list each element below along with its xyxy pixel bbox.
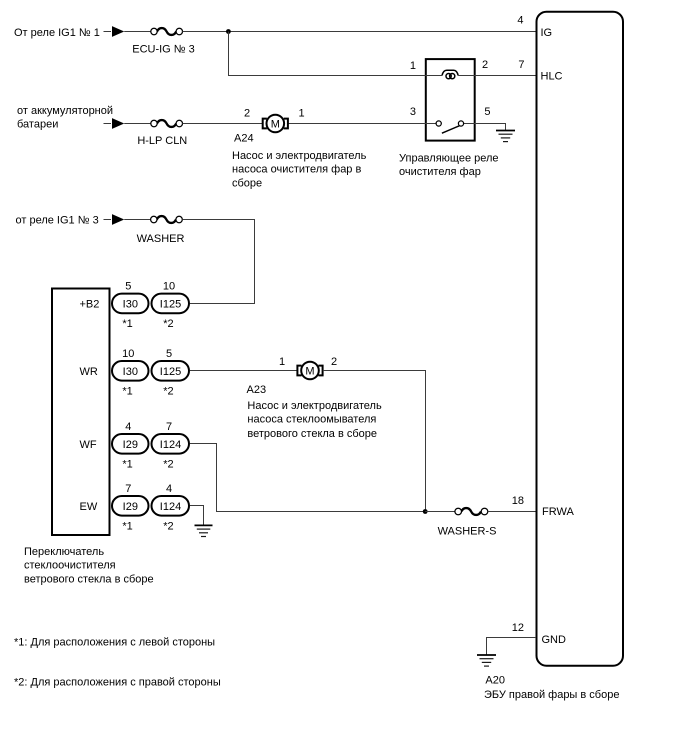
wire: WF row down and along to junction	[190, 444, 426, 512]
svg-text:*1: *1	[122, 458, 132, 470]
svg-text:H-LP CLN: H-LP CLN	[137, 135, 187, 147]
svg-text:насоса стеклоомывателя: насоса стеклоомывателя	[247, 414, 376, 426]
ground at EW	[195, 525, 213, 536]
svg-text:I125: I125	[160, 298, 181, 310]
wire: relay internal coil row	[425, 75, 442, 77]
connector I125 pin 10 (+B2 row)	[152, 280, 190, 330]
junction node on IG row	[226, 29, 231, 34]
svg-text:M: M	[305, 365, 314, 377]
ground at A20 GND	[477, 655, 496, 666]
svg-text:4: 4	[125, 421, 131, 433]
svg-text:*2: *2	[163, 520, 173, 532]
svg-text:I29: I29	[123, 439, 138, 451]
relay coil	[442, 70, 458, 79]
svg-text:*2: *2	[163, 385, 173, 397]
wire: junction to fuse WASHER-S	[425, 511, 455, 513]
svg-text:Управляющее реле: Управляющее реле	[399, 152, 499, 164]
svg-text:ECU-IG № 3: ECU-IG № 3	[132, 44, 195, 56]
svg-text:WF: WF	[80, 439, 97, 451]
svg-text:*2: Для расположения с правой: *2: Для расположения с правой стороны	[14, 676, 221, 688]
svg-text:7: 7	[166, 421, 172, 433]
wire: relay pin2 to ECU pin 7 HLC	[458, 75, 536, 77]
svg-text:I30: I30	[123, 298, 138, 310]
wire: EW row to ground	[190, 506, 204, 526]
svg-text:очистителя фар: очистителя фар	[399, 166, 481, 178]
connector I29 pin 7 (EW row)	[112, 483, 149, 533]
svg-text:I124: I124	[160, 439, 181, 451]
wire: fuse WASHER-S to ECU pin 18	[488, 511, 536, 513]
svg-text:I30: I30	[123, 366, 138, 378]
motor A24 (pump motor)	[263, 115, 288, 133]
svg-text:*1: *1	[122, 385, 132, 397]
svg-text:IG: IG	[541, 27, 553, 39]
connector I30 pin 5 (+B2 row)	[112, 280, 149, 330]
wire: motor A24 to relay pin 3	[288, 123, 425, 125]
svg-text:A24: A24	[234, 133, 254, 145]
svg-text:*2: *2	[163, 458, 173, 470]
svg-text:1: 1	[279, 356, 285, 368]
wire: WR row to motor A23	[190, 370, 297, 372]
svg-text:EW: EW	[80, 501, 98, 513]
fuse WASHER	[151, 216, 183, 223]
fuse H-LP CLN	[151, 120, 183, 127]
wire: arrow to fuse row1	[124, 31, 151, 33]
wire: fuse to motor A24	[183, 123, 263, 125]
connector I125 pin 5 (WR row)	[152, 348, 190, 398]
svg-text:2: 2	[331, 356, 337, 368]
svg-text:Насос и электродвигатель: Насос и электродвигатель	[247, 400, 382, 412]
svg-text:*1: *1	[122, 520, 132, 532]
svg-text:1: 1	[298, 108, 304, 120]
power arrow washer row	[112, 214, 124, 225]
power arrow battery row	[112, 118, 124, 129]
wire: ECU pin12 GND to ground	[487, 638, 537, 656]
connector I30 pin 10 (WR row)	[112, 348, 149, 398]
svg-text:WASHER: WASHER	[137, 233, 185, 245]
svg-text:5: 5	[125, 280, 131, 292]
connector I124 pin 4 (EW row)	[152, 483, 190, 533]
wire: arrow to fuse battery row	[124, 123, 151, 125]
motor A23 (washer pump motor)	[297, 362, 322, 380]
svg-text:10: 10	[122, 348, 134, 360]
ECU box A20 (ЭБУ правой фары)	[537, 12, 624, 666]
wire: fuse WASHER to +B2 connector	[182, 220, 254, 304]
wire: branch down to relay pin 1	[229, 32, 425, 76]
svg-text:I124: I124	[160, 501, 181, 513]
svg-text:1: 1	[410, 60, 416, 72]
svg-text:A23: A23	[247, 384, 267, 396]
svg-text:Насос и электродвигатель: Насос и электродвигатель	[232, 150, 367, 162]
svg-text:A20: A20	[485, 674, 505, 686]
junction node on FRWA row	[423, 509, 428, 514]
svg-text:ветрового стекла в сборе: ветрового стекла в сборе	[247, 428, 377, 440]
svg-text:M: M	[271, 119, 280, 131]
wire: stub before arrow row1	[104, 31, 112, 33]
svg-text:От реле IG1 № 1: От реле IG1 № 1	[14, 27, 100, 39]
svg-text:4: 4	[517, 15, 523, 27]
fuse WASHER-S	[455, 508, 488, 515]
wire: fuse to ECU pin4 (IG)	[183, 31, 537, 33]
svg-text:12: 12	[512, 622, 524, 634]
wire: relay pin5 to ground	[476, 124, 506, 131]
svg-text:3: 3	[410, 106, 416, 118]
wire: stub before arrow battery row	[104, 123, 112, 125]
svg-text:*1: Для расположения с левой с: *1: Для расположения с левой стороны	[14, 637, 215, 649]
svg-text:18: 18	[512, 495, 524, 507]
wire: arrow to fuse washer row	[124, 219, 150, 221]
svg-text:HLC: HLC	[541, 71, 563, 83]
svg-text:FRWA: FRWA	[542, 506, 574, 518]
svg-text:WASHER-S: WASHER-S	[438, 525, 497, 537]
ground at relay pin 5	[496, 131, 515, 142]
wire: stub before arrow washer row	[104, 219, 112, 221]
svg-text:2: 2	[482, 59, 488, 71]
svg-text:ЭБУ правой фары в сборе: ЭБУ правой фары в сборе	[484, 689, 619, 701]
power arrow row1	[112, 26, 124, 37]
svg-text:стеклоочистителя: стеклоочистителя	[24, 560, 116, 572]
fuse ECU-IG № 3	[151, 28, 183, 35]
svg-text:5: 5	[166, 348, 172, 360]
svg-text:I125: I125	[160, 366, 181, 378]
connector I29 pin 4 (WF row)	[112, 421, 149, 471]
svg-text:7: 7	[518, 59, 524, 71]
svg-text:I29: I29	[123, 501, 138, 513]
svg-text:WR: WR	[80, 366, 98, 378]
svg-text:от реле IG1 № 3: от реле IG1 № 3	[16, 214, 99, 226]
svg-text:батареи: батареи	[17, 119, 58, 131]
wiper switch box (Переключатель стеклоочистителя)	[52, 289, 110, 536]
svg-text:2: 2	[244, 108, 250, 120]
svg-text:от аккумуляторной: от аккумуляторной	[17, 105, 113, 117]
connector I124 pin 7 (WF row)	[152, 421, 190, 471]
svg-text:4: 4	[166, 483, 172, 495]
svg-text:насоса очистителя фар в: насоса очистителя фар в	[232, 164, 361, 176]
relay switch contacts	[425, 121, 476, 133]
svg-text:GND: GND	[542, 634, 567, 646]
wire: motor A23 down to FRWA row	[323, 371, 426, 512]
svg-text:Переключатель: Переключатель	[24, 546, 104, 558]
svg-text:сборе: сборе	[232, 177, 262, 189]
svg-text:*1: *1	[122, 318, 132, 330]
svg-text:5: 5	[484, 106, 490, 118]
svg-text:7: 7	[125, 483, 131, 495]
svg-text:*2: *2	[163, 318, 173, 330]
svg-text:ветрового стекла в сборе: ветрового стекла в сборе	[24, 573, 154, 585]
relay box (Управляющее реле очистителя фар)	[426, 59, 475, 141]
svg-text:10: 10	[163, 280, 175, 292]
svg-text:+B2: +B2	[80, 298, 100, 310]
